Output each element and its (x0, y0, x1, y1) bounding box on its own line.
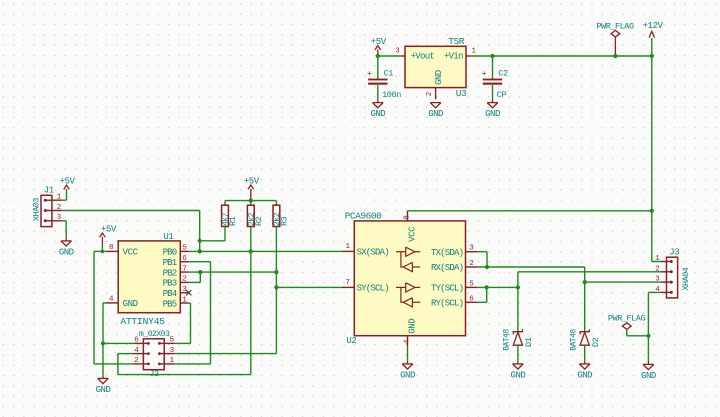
svg-text:RY(SCL): RY(SCL) (431, 299, 463, 309)
svg-text:2: 2 (655, 265, 659, 273)
svg-text:R3: R3 (280, 216, 290, 226)
svg-text:+5V: +5V (371, 37, 387, 47)
svg-text:+5V: +5V (101, 225, 117, 235)
svg-text:GND: GND (123, 299, 138, 309)
svg-text:U1: U1 (163, 232, 173, 242)
svg-text:2: 2 (134, 357, 138, 365)
svg-text:J3: J3 (669, 247, 679, 257)
svg-text:+12V: +12V (643, 21, 664, 31)
svg-text:CP: CP (497, 90, 507, 100)
svg-text:TX(SDA): TX(SDA) (431, 248, 463, 258)
svg-text:+: + (367, 70, 372, 79)
svg-text:ATTINY45: ATTINY45 (120, 316, 165, 327)
svg-text:J1: J1 (44, 186, 54, 196)
svg-text:2: 2 (57, 204, 61, 212)
svg-text:2: 2 (182, 276, 186, 284)
svg-text:+5V: +5V (59, 177, 75, 187)
svg-text:PWR_FLAG: PWR_FLAG (608, 314, 646, 324)
svg-text:D2: D2 (591, 337, 601, 347)
svg-text:U2: U2 (346, 336, 356, 346)
svg-text:2: 2 (469, 260, 473, 268)
svg-text:PB3: PB3 (163, 279, 177, 289)
svg-text:RX(SDA): RX(SDA) (431, 263, 463, 273)
svg-text:PB5: PB5 (163, 299, 177, 309)
svg-text:D1: D1 (524, 337, 534, 347)
svg-text:BAT48: BAT48 (503, 329, 512, 351)
svg-text:XHA03: XHA03 (32, 198, 42, 221)
svg-text:7: 7 (182, 265, 186, 273)
svg-text:GND: GND (434, 70, 444, 85)
svg-text:PWR_FLAG: PWR_FLAG (596, 22, 634, 32)
svg-text:GND: GND (59, 248, 74, 258)
svg-text:+Vin: +Vin (444, 52, 463, 62)
svg-text:m_02X03: m_02X03 (139, 330, 170, 339)
svg-text:GND: GND (641, 371, 656, 381)
svg-text:8: 8 (404, 216, 412, 220)
svg-text:R1: R1 (228, 216, 238, 226)
svg-text:PB4: PB4 (163, 289, 177, 299)
svg-text:PB0: PB0 (163, 248, 177, 258)
svg-text:R2: R2 (254, 216, 264, 226)
svg-text:7: 7 (345, 279, 349, 287)
svg-text:GND: GND (577, 371, 592, 381)
svg-text:+5V: +5V (244, 177, 260, 187)
svg-text:GND: GND (485, 109, 500, 119)
svg-text:GND: GND (511, 371, 526, 381)
svg-text:8: 8 (109, 244, 113, 252)
svg-text:+: + (482, 70, 487, 79)
svg-text:XHA04: XHA04 (681, 267, 691, 290)
svg-text:VCC: VCC (408, 226, 418, 242)
svg-text:GND: GND (96, 385, 111, 395)
svg-text:GND: GND (408, 319, 418, 334)
svg-text:TY(SCL): TY(SCL) (431, 284, 463, 294)
svg-text:PCA9600: PCA9600 (345, 210, 383, 221)
svg-text:C1: C1 (384, 68, 394, 78)
svg-text:C2: C2 (498, 68, 508, 78)
svg-text:GND: GND (400, 371, 415, 381)
svg-text:GND: GND (428, 109, 443, 119)
svg-text:100n: 100n (382, 90, 401, 100)
svg-text:PB2: PB2 (163, 268, 177, 278)
svg-text:U3: U3 (456, 88, 467, 99)
svg-text:+Vout: +Vout (411, 52, 435, 62)
svg-text:SX(SDA): SX(SDA) (357, 248, 389, 258)
svg-text:2: 2 (426, 92, 434, 96)
svg-text:PB1: PB1 (163, 258, 177, 268)
svg-text:GND: GND (370, 109, 385, 119)
svg-text:TSR: TSR (448, 36, 465, 47)
svg-text:SY(SCL): SY(SCL) (357, 284, 389, 294)
svg-text:BAT48: BAT48 (570, 329, 579, 351)
svg-text:VCC: VCC (123, 248, 139, 258)
